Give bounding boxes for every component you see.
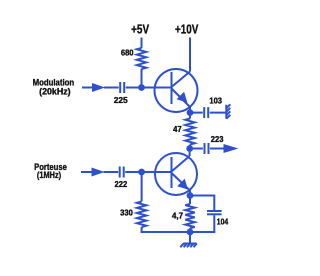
wire porteuse input [81, 171, 93, 173]
svg-text:225: 225 [114, 95, 128, 105]
wire R4.7 to ground node [189, 228, 191, 232]
wire emitter to R4.7 [189, 196, 191, 205]
wire C222 to Q2 base [125, 171, 171, 173]
node Q1 emitter [187, 109, 194, 116]
resistor R 4,7 [185, 204, 194, 228]
svg-text:47: 47 [173, 125, 182, 134]
wire emitter to C103 [190, 112, 203, 114]
node ground rail [187, 229, 194, 236]
wire C225 to Q1 base [126, 87, 172, 89]
wire arrow to C225 [104, 87, 119, 89]
svg-text:104: 104 [217, 217, 229, 226]
wire modulation input [82, 87, 93, 89]
wire emitter node to R47 [189, 113, 191, 119]
transistor Q2 [155, 153, 197, 196]
node Q2 base [138, 169, 145, 176]
arrow output [224, 144, 239, 153]
capacitor C 223 [204, 143, 206, 154]
wire C103 to chassis [210, 112, 227, 114]
wire bottom rail [141, 231, 216, 233]
wire C104 top [213, 195, 215, 211]
resistor R 47 [185, 119, 194, 145]
arrow modulation input [92, 83, 105, 92]
svg-text:222: 222 [115, 179, 128, 189]
svg-text:(1MHz): (1MHz) [37, 170, 61, 180]
wire R330 to bottom rail [141, 227, 143, 232]
chassis ground right [226, 104, 230, 119]
svg-text:330: 330 [120, 208, 133, 217]
ground [180, 232, 197, 247]
transistor Q1 [155, 69, 198, 113]
arrow porteuse input [92, 168, 105, 177]
svg-text:103: 103 [209, 97, 222, 106]
node output [186, 145, 193, 152]
resistor R 330 [137, 202, 146, 228]
wire +10V to Q1 collector [189, 38, 191, 72]
wire C104 bottom [213, 215, 215, 232]
svg-text:+10V: +10V [175, 22, 199, 37]
wire C223 to output arrow [210, 148, 225, 150]
wire Q2 base to R330 [141, 172, 143, 202]
capacitor C 103 [203, 107, 205, 118]
svg-text:4,7: 4,7 [172, 212, 184, 221]
node Q2 emitter [187, 192, 194, 199]
svg-text:223: 223 [211, 135, 224, 144]
wire emitter to C104 branch [190, 195, 214, 197]
wire arrow to C222 [104, 171, 119, 173]
wire node to C223 [190, 148, 203, 150]
wire 680 to base node [141, 69, 143, 88]
node Q1 base [138, 84, 145, 91]
wire Q2 collector [189, 149, 191, 157]
capacitor C 222 [119, 167, 121, 178]
svg-text:680: 680 [121, 48, 134, 57]
resistor R 680 [137, 48, 146, 69]
wire +5V feed [141, 38, 143, 49]
svg-text:(20kHz): (20kHz) [39, 87, 71, 97]
capacitor C 225 [119, 82, 121, 93]
wire R47 to output node [189, 145, 191, 149]
capacitor C 104 [207, 210, 222, 212]
svg-text:+5V: +5V [131, 22, 149, 37]
